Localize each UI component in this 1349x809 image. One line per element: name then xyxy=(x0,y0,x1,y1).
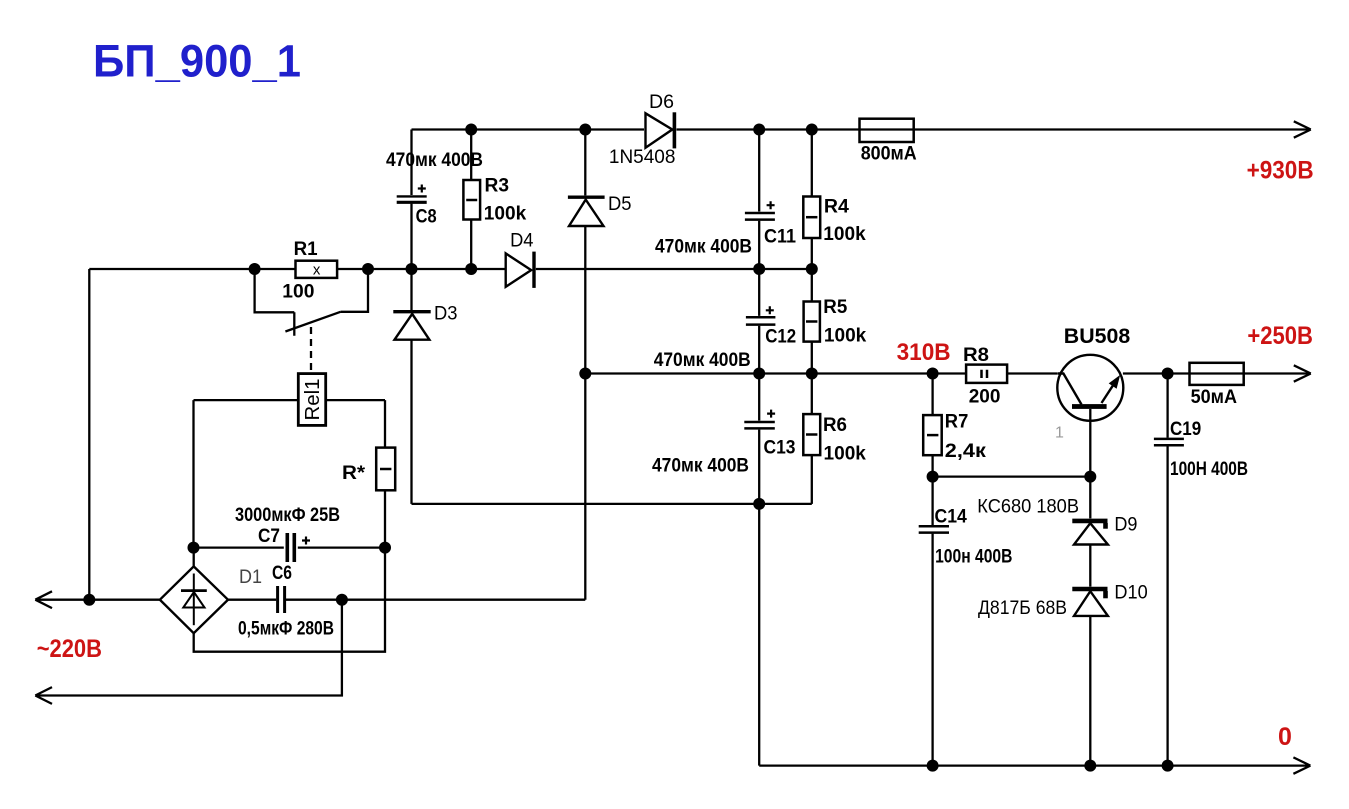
wire 0V bottom rail with output arrow xyxy=(759,757,1310,773)
svg-text:C14: C14 xyxy=(935,506,968,527)
junction C6 line / AC line 2 branch xyxy=(336,594,348,606)
svg-text:+250В: +250В xyxy=(1247,322,1313,350)
svg-text:D10: D10 xyxy=(1114,582,1147,603)
svg-text:C19: C19 xyxy=(1170,419,1201,440)
svg-text:R7: R7 xyxy=(945,412,969,433)
svg-text:C8: C8 xyxy=(416,206,437,227)
junction rail4 / C13 column xyxy=(753,498,765,510)
svg-text:C12: C12 xyxy=(765,327,796,348)
svg-text:C13: C13 xyxy=(764,438,796,459)
svg-text:D5: D5 xyxy=(608,194,632,215)
svg-text:D1: D1 xyxy=(239,567,262,588)
junction rail3 / R7 top (310V node) xyxy=(927,368,939,380)
wire rail2 segments xyxy=(89,268,812,270)
svg-text:R6: R6 xyxy=(823,415,847,436)
junction rail3 / C12-C13 xyxy=(753,368,765,380)
diode D4 xyxy=(506,252,534,288)
wire R1 bypass left branch with contact stub xyxy=(255,269,295,336)
wire +930V rail left segment xyxy=(412,128,645,130)
svg-text:D6: D6 xyxy=(649,92,674,113)
capacitor C7 xyxy=(287,533,310,562)
junction bottom rail / C14 column xyxy=(927,760,939,772)
switch blade xyxy=(285,312,341,332)
svg-text:800мА: 800мА xyxy=(861,144,917,165)
svg-text:0,5мкФ 280В: 0,5мкФ 280В xyxy=(238,619,334,640)
wire R5 column xyxy=(811,269,813,374)
svg-text:1N5408: 1N5408 xyxy=(609,147,676,168)
wire R7 column xyxy=(931,374,933,477)
svg-text:3000мкФ 25В: 3000мкФ 25В xyxy=(235,505,340,526)
svg-text:КС680 180В: КС680 180В xyxy=(977,496,1079,517)
wire relay coil line xyxy=(194,399,386,401)
wire AC input line 1 with arrow xyxy=(35,591,160,608)
junction rail2 / R1 left bypass xyxy=(249,263,261,275)
resistor R7 xyxy=(923,415,942,455)
junction C7 line right / R* column xyxy=(379,542,391,554)
svg-text:R5: R5 xyxy=(823,297,847,318)
resistor R3 xyxy=(463,180,480,220)
junction rail2 / R3 bottom xyxy=(465,263,477,275)
svg-text:D4: D4 xyxy=(510,231,534,252)
wire R6 column xyxy=(811,374,813,504)
switch to relay dashed link xyxy=(310,327,312,374)
wire left tall column (rail2 to AC line 1) xyxy=(88,269,90,600)
wire C8/D3 column xyxy=(410,130,412,504)
diode D5 xyxy=(568,197,605,226)
zener D9 xyxy=(1072,521,1108,545)
capacitor C19 xyxy=(1154,439,1184,445)
diode D6 xyxy=(646,112,675,148)
svg-text:~220В: ~220В xyxy=(37,635,102,663)
wire relay left column xyxy=(192,400,194,547)
junction AC line 1 / left column xyxy=(83,594,95,606)
junction rail1 / D5 column xyxy=(579,124,591,136)
junction rail3 / D5 column xyxy=(579,368,591,380)
svg-text:470мк 400В: 470мк 400В xyxy=(655,237,752,258)
wire +930V rail right segment with output arrow xyxy=(677,128,1311,130)
svg-text:470мк 400В: 470мк 400В xyxy=(386,150,483,171)
svg-text:100k: 100k xyxy=(824,326,867,347)
svg-text:D9: D9 xyxy=(1114,515,1137,536)
junction rail3 / R5-R6 xyxy=(806,368,818,380)
zener D10 xyxy=(1072,589,1108,616)
junction rail3 / C19 top xyxy=(1162,368,1174,380)
wire D5 column down to C6 line xyxy=(584,130,586,600)
wire C13 column xyxy=(758,374,760,766)
wire C12 column xyxy=(758,269,760,374)
capacitor C14 xyxy=(919,526,949,532)
wire rail4 (C13 bottom bus) xyxy=(412,503,812,505)
resistor R* xyxy=(376,448,395,491)
svg-text:50мА: 50мА xyxy=(1191,387,1238,408)
junction rail1 / R3 top xyxy=(465,124,477,136)
capacitor C11 xyxy=(745,201,775,219)
junction base link / R7-C14 column xyxy=(927,471,939,483)
wire R* column xyxy=(384,400,386,547)
resistor R8 xyxy=(966,365,1007,383)
svg-text:R1: R1 xyxy=(294,239,318,260)
svg-text:100: 100 xyxy=(282,281,314,302)
wire bridge bottom loop to R* column xyxy=(194,548,385,652)
svg-text:0: 0 xyxy=(1278,723,1292,751)
svg-text:BU508: BU508 xyxy=(1064,325,1131,348)
resistor R6 xyxy=(803,414,820,455)
junction base link / emitter column xyxy=(1084,471,1096,483)
svg-text:100k: 100k xyxy=(824,444,867,465)
capacitor C12 xyxy=(746,306,776,324)
wire transistor emitter / zener column xyxy=(1089,409,1091,766)
capacitor C8 xyxy=(397,185,427,203)
svg-text:100Н 400В: 100Н 400В xyxy=(1170,459,1248,480)
bridge rectifier D1 xyxy=(160,566,228,633)
svg-text:2,4к: 2,4к xyxy=(945,441,987,462)
svg-text:C6: C6 xyxy=(272,563,292,584)
resistor R1 xyxy=(296,261,338,278)
svg-text:100k: 100k xyxy=(484,204,527,225)
svg-text:Д817Б 68В: Д817Б 68В xyxy=(978,598,1067,619)
junction rail2 / R4-R5 xyxy=(806,263,818,275)
junction bottom rail / C19 column xyxy=(1162,760,1174,772)
wire 310V/+250V rail segments with output arrow xyxy=(585,372,1310,374)
svg-text:470мк 400В: 470мк 400В xyxy=(654,350,751,371)
svg-text:R8: R8 xyxy=(963,345,989,366)
wire R4 column xyxy=(811,130,813,270)
svg-text:R*: R* xyxy=(342,463,366,484)
wire C14 column xyxy=(931,477,933,766)
svg-text:C11: C11 xyxy=(764,227,796,248)
wire C7 line xyxy=(194,546,386,548)
wire C19 column xyxy=(1166,374,1168,766)
svg-text:310В: 310В xyxy=(897,339,951,366)
svg-text:Rel1: Rel1 xyxy=(302,379,324,421)
svg-text:470мк 400В: 470мк 400В xyxy=(652,456,749,477)
wire C11 column xyxy=(758,130,760,270)
junction C7 line left xyxy=(188,542,200,554)
svg-text:100н 400В: 100н 400В xyxy=(935,546,1012,567)
diode D3 xyxy=(393,312,430,340)
svg-text:x: x xyxy=(313,262,321,279)
junction rail2 / C11-C12 xyxy=(753,263,765,275)
junction rail1 / C11 top xyxy=(753,124,765,136)
resistor R4 xyxy=(803,197,820,239)
transistor Q1 BU508 xyxy=(1057,355,1123,421)
junction bottom rail / zener column xyxy=(1084,760,1096,772)
wire R3 column xyxy=(470,130,472,270)
svg-text:R4: R4 xyxy=(824,197,849,218)
wire R1 bypass right branch xyxy=(341,269,368,312)
junction rail1 / R4 top xyxy=(806,124,818,136)
wire AC line 2 branch from C6 line junction, with arrow xyxy=(35,600,342,704)
wire bridge top vertex link xyxy=(193,548,195,567)
relay coil Rel1 xyxy=(298,374,325,426)
wire base link (R7 bottom to emitter column) xyxy=(933,475,1091,477)
fuse 50mA xyxy=(1190,363,1244,385)
junction rail2 / R1 right bypass xyxy=(362,263,374,275)
capacitor C6 xyxy=(278,586,285,613)
svg-text:D3: D3 xyxy=(434,304,458,325)
junction rail2 / C8-D3 column xyxy=(406,263,418,275)
fuse 800mA xyxy=(860,119,914,142)
svg-text:БП_900_1: БП_900_1 xyxy=(93,36,301,87)
svg-text:R3: R3 xyxy=(485,176,510,197)
svg-text:100k: 100k xyxy=(823,224,866,245)
svg-text:+930В: +930В xyxy=(1247,157,1314,185)
resistor R5 xyxy=(804,302,820,342)
wire C6 line (bridge right vertex to D5 column) xyxy=(228,599,585,601)
svg-text:200: 200 xyxy=(969,387,1001,408)
svg-text:1: 1 xyxy=(1055,424,1064,441)
capacitor C13 xyxy=(744,410,775,429)
svg-text:C7: C7 xyxy=(258,526,280,547)
